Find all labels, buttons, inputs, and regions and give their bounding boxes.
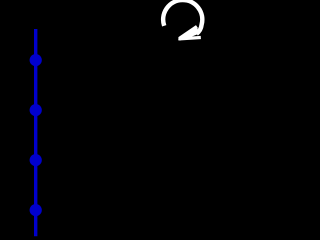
self-loop arc	[163, 0, 202, 34]
arrowhead tip	[178, 38, 181, 40]
arrowhead lower barb	[179, 38, 201, 39]
wire	[34, 29, 37, 236]
node 1	[30, 54, 42, 66]
arrowhead fill	[179, 26, 199, 39]
node 2	[30, 104, 42, 116]
node 4	[30, 204, 42, 216]
node 3	[30, 154, 42, 166]
arrowhead upper barb	[179, 27, 197, 39]
